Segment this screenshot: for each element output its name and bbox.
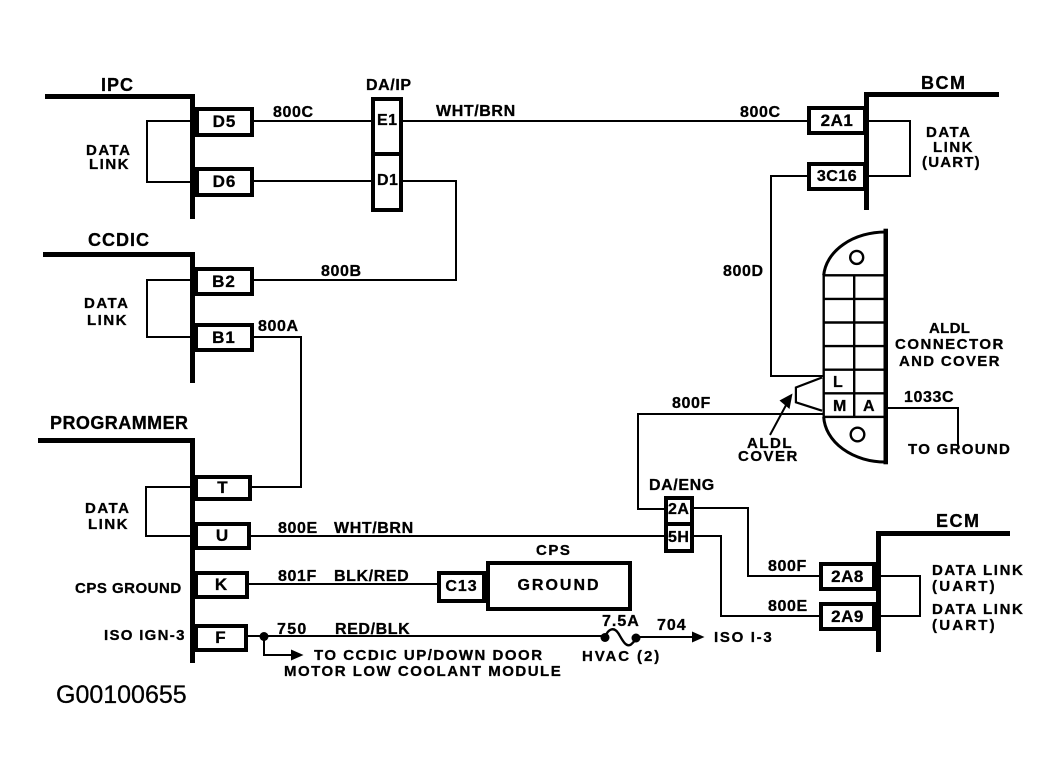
CPS GROUND label	[75, 581, 182, 596]
ECM boundary vertical line	[876, 531, 881, 652]
pin M label	[833, 399, 846, 415]
PROGRAMMER boundary vertical line	[190, 438, 195, 663]
label 800D	[723, 264, 764, 280]
connector 2A9	[819, 602, 876, 631]
pin 5H label	[668, 530, 689, 546]
IPC data-link bracket vertical	[146, 120, 148, 183]
DA/ENG divider	[666, 522, 692, 526]
CCDIC boundary horizontal line	[43, 252, 193, 257]
BCM DATA LINK (UART) label	[926, 125, 971, 140]
wire T right	[252, 486, 302, 488]
label 800A	[258, 319, 299, 335]
wire K 801F	[249, 583, 437, 585]
ISO IGN-3 label	[104, 628, 186, 643]
pin 2A label	[668, 502, 689, 518]
pin A label	[863, 399, 875, 415]
connector F	[194, 624, 248, 652]
CCDIC data-link bracket top	[146, 279, 190, 281]
CCDIC data-link bracket vertical	[146, 279, 148, 338]
connector C13	[437, 571, 486, 603]
TO CCDIC UP/DOWN DOOR label	[314, 648, 544, 663]
ECM label	[936, 512, 981, 530]
connector DA/ENG body	[664, 496, 694, 553]
label WHT/BRN 800E	[334, 521, 414, 537]
figure id G00100655	[56, 683, 187, 708]
label 800C	[273, 105, 314, 121]
label 800E	[278, 521, 318, 537]
wire 5H down	[720, 535, 722, 617]
PROGRAMMER data-link bracket vertical	[145, 486, 147, 537]
ECM bracket vertical	[919, 575, 921, 617]
IPC data-link bracket bottom	[146, 181, 190, 183]
label 800F	[672, 396, 711, 412]
pin E1 label	[377, 113, 398, 129]
label 801F	[278, 569, 317, 585]
pin L label	[833, 375, 843, 391]
pin D1 label	[377, 173, 398, 189]
CCDIC data-link bracket bottom	[146, 336, 190, 338]
DA/IP label	[366, 78, 412, 94]
label WHT/BRN	[436, 104, 516, 120]
BCM boundary vertical line	[864, 92, 869, 210]
connector 3C16	[807, 162, 867, 191]
wire D6 to D1	[254, 180, 371, 182]
wire 1033C right	[888, 407, 959, 409]
wire 3C16 left	[771, 175, 807, 177]
wire 2A right	[694, 507, 749, 509]
wire 800F vertical	[637, 413, 639, 510]
connector D6	[195, 167, 254, 197]
IPC boundary vertical line	[190, 94, 195, 219]
wire E1 to 2A1 WHT/BRN	[403, 120, 807, 122]
connector T	[194, 475, 252, 501]
connector K	[194, 571, 249, 599]
wire 800F horizontal top	[637, 413, 824, 415]
wire 1033C down	[957, 407, 959, 446]
DA/IP divider	[373, 152, 401, 156]
connector B2	[194, 267, 254, 296]
label 7.5A	[602, 614, 640, 630]
label 800C at BCM	[740, 105, 781, 121]
CPS GROUND box	[486, 561, 632, 611]
wire 704	[636, 636, 693, 638]
PROGRAMMER data-link bracket bottom	[145, 535, 190, 537]
wire 5H right	[694, 535, 722, 537]
PROGRAMMER boundary horizontal line	[38, 438, 193, 443]
connector 2A1	[807, 106, 867, 135]
connector D5	[195, 107, 254, 137]
label 800B	[321, 264, 362, 280]
wire U 800E WHT/BRN	[251, 535, 664, 537]
BCM bracket bottom	[867, 175, 911, 177]
wire F 750 RED/BLK	[248, 635, 605, 637]
ISO I-3 label	[714, 630, 773, 645]
wire D5 to E1	[254, 120, 371, 122]
label 704	[657, 618, 687, 634]
ECM bracket bottom	[881, 615, 921, 617]
label RED/BLK	[335, 622, 410, 638]
label 800F at ECM	[768, 559, 807, 575]
BCM boundary horizontal line	[865, 92, 999, 97]
CCDIC DATA LINK label	[84, 296, 129, 311]
wire to 2A8	[747, 575, 819, 577]
wire 800A vertical	[300, 336, 302, 488]
wire D1 right segment	[403, 180, 457, 182]
IPC DATA LINK label	[86, 143, 131, 158]
IPC boundary horizontal line	[45, 94, 193, 99]
branch wire down from junction	[263, 636, 265, 655]
IPC label	[101, 76, 134, 94]
ALDL CONNECTOR AND COVER label	[929, 321, 970, 336]
connector B1	[194, 323, 254, 352]
DA/ENG label	[649, 478, 715, 494]
wire B1 800A right	[254, 336, 302, 338]
label BLK/RED	[334, 569, 409, 585]
ECM bracket top	[881, 575, 921, 577]
branch wire right with arrow	[263, 654, 292, 656]
connector DA/IP body	[371, 97, 403, 212]
wire to 2A9	[720, 615, 819, 617]
ECM DATA LINK (UART) label 2	[932, 602, 1024, 617]
wire D1 vertical down	[455, 180, 457, 281]
CPS label	[536, 543, 571, 558]
wire 800D horizontal to ALDL	[770, 375, 825, 377]
wire 800D vertical	[770, 175, 772, 377]
connector U	[194, 522, 251, 550]
BCM bracket vertical	[909, 120, 911, 177]
ECM boundary horizontal line	[878, 531, 1010, 536]
ALDL COVER label	[747, 436, 793, 451]
BCM bracket top	[867, 120, 911, 122]
CCDIC boundary vertical line	[190, 252, 195, 383]
PROGRAMMER data-link bracket top	[145, 486, 190, 488]
wire 2A down	[747, 507, 749, 577]
label 1033C	[904, 390, 954, 406]
label 750	[277, 622, 308, 638]
PROGRAMMER label	[50, 414, 189, 432]
ECM DATA LINK (UART) label 1	[932, 563, 1024, 578]
HVAC (2) label	[582, 649, 661, 664]
BCM label	[921, 74, 967, 92]
TO GROUND label	[908, 442, 1011, 457]
wire to 2A left	[637, 508, 664, 510]
PROGRAMMER DATA LINK label	[85, 501, 130, 516]
wire B2 800B	[254, 279, 457, 281]
label 800E at ECM	[768, 599, 808, 615]
CCDIC label	[88, 231, 150, 249]
MOTOR LOW COOLANT MODULE label	[284, 664, 562, 679]
connector 2A8	[819, 562, 876, 591]
IPC data-link bracket top	[146, 120, 190, 122]
